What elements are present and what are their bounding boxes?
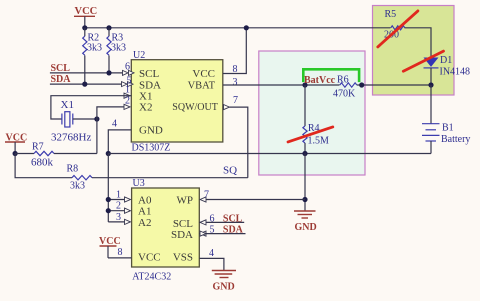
svg-text:SCL: SCL (173, 218, 193, 230)
resistor R7 (15, 142, 97, 169)
svg-text:BatVcc: BatVcc (304, 75, 336, 86)
svg-text:GND: GND (139, 125, 163, 137)
svg-text:680k: 680k (31, 157, 54, 169)
wire VBAT net (223, 84, 340, 86)
svg-text:DS1307Z: DS1307Z (132, 143, 171, 154)
IC U3 body (132, 178, 200, 283)
svg-text:WP: WP (177, 195, 194, 207)
svg-text:R7: R7 (32, 142, 44, 153)
node R2/SDA (82, 82, 87, 87)
svg-text:SDA: SDA (51, 74, 72, 85)
ground symbol U3 (212, 271, 236, 293)
svg-text:GND: GND (295, 222, 317, 233)
pin 3 arrow U3 (125, 219, 131, 224)
svg-text:32768Hz: 32768Hz (51, 132, 91, 144)
svg-text:A2: A2 (138, 217, 151, 229)
svg-text:X1: X1 (61, 99, 74, 111)
pin 5 arrow (122, 82, 128, 87)
resistor R6 (333, 75, 357, 100)
resistor R2 (83, 28, 102, 84)
svg-text:SCL: SCL (223, 213, 243, 224)
svg-text:1: 1 (125, 85, 130, 96)
resistor R8 (67, 164, 248, 192)
svg-text:1.5M: 1.5M (308, 136, 330, 147)
svg-text:VCC: VCC (138, 252, 161, 264)
svg-text:VCC: VCC (75, 6, 98, 17)
pin 2 arrow U3 (125, 208, 131, 213)
svg-text:R5: R5 (385, 9, 397, 20)
svg-text:D1: D1 (440, 55, 452, 66)
svg-text:3: 3 (116, 212, 121, 223)
svg-text:SCL: SCL (139, 68, 159, 80)
pin 6 arrow (123, 70, 129, 75)
svg-text:A0: A0 (138, 195, 152, 207)
svg-text:VBAT: VBAT (188, 80, 216, 91)
pin 1 arrow (124, 93, 130, 98)
wire WP net (206, 199, 305, 201)
ground symbol mid (294, 211, 317, 233)
node WP/gnd (302, 197, 307, 202)
wire SDA stub U3 (199, 233, 245, 235)
power VCC top (74, 6, 97, 28)
svg-text:4: 4 (112, 119, 117, 130)
node VCC/R2 (82, 25, 87, 30)
svg-text:U3: U3 (133, 178, 145, 189)
wire VSS to gnd (199, 258, 224, 270)
pin 7 arrow U3 (200, 197, 206, 202)
svg-text:4: 4 (209, 248, 214, 259)
wire U2 pin8 VCC (223, 28, 246, 74)
red DNP line R5 (378, 11, 418, 47)
node D1/battery (428, 82, 433, 87)
svg-text:2: 2 (125, 96, 130, 107)
svg-text:A1: A1 (138, 206, 151, 218)
svg-text:SDA: SDA (223, 224, 244, 235)
node VCC/R3 (106, 25, 111, 30)
svg-text:X1: X1 (139, 91, 152, 103)
wire VCC to R8 (15, 154, 72, 178)
svg-text:VSS: VSS (173, 252, 193, 264)
wire R5 to D1 (405, 28, 432, 58)
svg-text:6: 6 (210, 214, 215, 225)
svg-text:5: 5 (210, 225, 215, 236)
wire U2 pin4 to gnd rail (108, 130, 131, 154)
svg-text:2: 2 (116, 201, 121, 212)
node R6/VBAT (359, 82, 364, 87)
svg-text:IN4148: IN4148 (440, 67, 471, 78)
resistor R4 (303, 85, 329, 154)
pin 1 arrow U3 (125, 197, 131, 202)
highlight box cyan (259, 51, 365, 175)
svg-text:8: 8 (118, 247, 123, 258)
svg-text:SQW/OUT: SQW/OUT (172, 102, 218, 113)
wire top rail (85, 27, 391, 29)
svg-text:1: 1 (116, 190, 121, 201)
node R3/SCL (106, 70, 111, 75)
wire SQ up to pin7 (230, 107, 248, 178)
battery B1 (422, 85, 470, 154)
wire X2 pin (97, 107, 124, 119)
crystal X1 (51, 99, 91, 144)
svg-text:3: 3 (233, 77, 238, 88)
node pin8/VCC rail (244, 25, 249, 30)
red DNP line R4 (288, 127, 333, 142)
highlight box olive (373, 6, 455, 96)
svg-text:3k3: 3k3 (111, 42, 126, 53)
op IC U2 body (131, 50, 223, 154)
wire crystal node down to R7 (96, 119, 98, 154)
svg-text:6: 6 (125, 62, 130, 73)
node R4/VBAT (302, 82, 307, 87)
power VCC left (5, 133, 27, 154)
wire crystal to X2 (73, 118, 97, 120)
resistor R3 (107, 28, 126, 73)
svg-text:B1: B1 (442, 123, 454, 134)
pin 7 arrow U2 (224, 105, 230, 110)
node X1/X2 (94, 116, 99, 121)
wire A0-A2 bus (107, 154, 109, 222)
svg-text:7: 7 (204, 190, 209, 201)
node gnd rail left (106, 151, 111, 156)
crystal X1 wires (51, 96, 131, 119)
svg-text:470K: 470K (333, 89, 356, 100)
svg-text:VCC: VCC (192, 68, 215, 80)
wire SCL stub U3 (199, 221, 244, 223)
svg-text:SDA: SDA (171, 229, 193, 241)
wire SDA net (50, 83, 124, 85)
resistor R5 (384, 9, 405, 41)
svg-text:R8: R8 (67, 164, 79, 175)
svg-text:SQ: SQ (223, 165, 237, 177)
svg-text:Battery: Battery (441, 134, 470, 145)
red DNP line D1 (403, 51, 443, 71)
svg-text:X2: X2 (139, 102, 152, 114)
svg-text:U2: U2 (133, 50, 145, 61)
svg-text:AT24C32: AT24C32 (132, 272, 171, 283)
svg-text:SCL: SCL (51, 63, 71, 74)
svg-text:SDA: SDA (139, 79, 161, 91)
wire gnd rail (108, 153, 431, 155)
power VCC U3 (99, 236, 132, 258)
pin 2 arrow (124, 104, 130, 109)
svg-text:3k3: 3k3 (70, 181, 85, 192)
node R4 bottom (302, 151, 307, 156)
wire gnd stub (304, 154, 306, 211)
wire SCL net (50, 72, 124, 74)
svg-text:GND: GND (213, 282, 235, 293)
diode D1 (424, 55, 471, 85)
svg-text:7: 7 (233, 95, 238, 106)
node VCC/R7/R8 (13, 151, 18, 156)
svg-text:3k3: 3k3 (87, 42, 102, 53)
green bracket (303, 69, 359, 82)
